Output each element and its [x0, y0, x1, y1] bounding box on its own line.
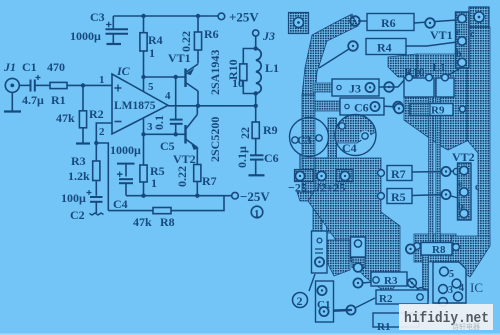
wire R1 to opamp pin1	[67, 84, 112, 86]
copper pour right column	[467, 27, 490, 245]
svg-text:2SC5200: 2SC5200	[208, 117, 222, 162]
wire J1 to C1	[19, 84, 29, 86]
svg-text:R7: R7	[202, 174, 217, 188]
copper strip between C3 C4	[328, 118, 337, 160]
svg-text:R5: R5	[391, 190, 406, 204]
op-amp U1 LM1875 triangle	[112, 74, 168, 134]
trace J3 left	[313, 83, 332, 92]
resistor R6	[194, 16, 201, 64]
svg-text:1: 1	[151, 176, 157, 190]
node rail-R4	[141, 14, 145, 18]
svg-text:VT1: VT1	[430, 28, 453, 42]
svg-text:L1: L1	[432, 60, 446, 74]
node output-collectors	[196, 104, 200, 108]
wire J3 down	[255, 36, 257, 48]
terminal J3	[253, 30, 259, 36]
node R7 bottom	[195, 194, 199, 198]
component R7 box	[378, 166, 412, 182]
svg-text:VT2: VT2	[452, 150, 475, 164]
trace C6 to R9	[381, 106, 399, 107]
svg-text:4: 4	[165, 90, 171, 102]
capacitor C1	[31, 75, 41, 92]
svg-text:IC: IC	[116, 64, 131, 78]
svg-text:+25V: +25V	[229, 10, 259, 25]
node R4 pin5	[141, 75, 145, 79]
copper pour center	[308, 158, 400, 295]
wire L1 to output	[255, 94, 257, 123]
capacitor C5	[170, 120, 183, 135]
wire pin3 stub	[143, 118, 145, 134]
svg-text:1: 1	[149, 46, 155, 60]
svg-text:C6: C6	[264, 151, 279, 165]
svg-text:470: 470	[47, 60, 65, 74]
capacitor C4	[117, 164, 135, 196]
svg-text:4: 4	[459, 283, 464, 294]
svg-text:4.7μ: 4.7μ	[22, 93, 44, 107]
capacitor C3	[106, 16, 129, 44]
svg-text:R9: R9	[431, 105, 445, 117]
svg-text:J2: J2	[314, 181, 327, 195]
svg-text:22: 22	[238, 127, 252, 139]
copper trace band J2 riser	[302, 158, 331, 192]
svg-text:c: c	[470, 29, 475, 40]
svg-text:3: 3	[448, 285, 453, 296]
svg-text:R1: R1	[51, 93, 66, 107]
component C1 box pcb	[316, 281, 334, 322]
component R6 box	[367, 14, 414, 31]
svg-text:R3: R3	[71, 154, 86, 168]
resistor R2	[76, 85, 90, 143]
trace VT1 to L1	[447, 67, 462, 76]
wire output rail	[168, 105, 256, 107]
inductor L1	[256, 49, 262, 94]
pad R9 right	[460, 106, 466, 112]
resistor R9	[252, 122, 259, 155]
svg-text:5: 5	[148, 81, 154, 93]
node R5 top	[141, 132, 145, 136]
trace J3 to R10	[375, 78, 406, 87]
trace C6 left	[315, 101, 340, 111]
component L1 box	[436, 74, 454, 97]
svg-text:1.2k: 1.2k	[68, 169, 90, 183]
terminal +25V	[218, 13, 225, 20]
node output R9	[254, 104, 258, 108]
copper trace strips to J1	[313, 199, 322, 231]
svg-text:R2: R2	[89, 107, 104, 121]
wire pin2 node to R8 rail	[96, 143, 108, 211]
resistor R1	[50, 82, 67, 88]
copper pour IC diagonal	[448, 236, 490, 277]
copper pour behind R8	[414, 234, 456, 262]
component R5 box	[378, 189, 412, 205]
trace C2pad to R3	[362, 281, 384, 283]
svg-text:−25V: −25V	[240, 189, 270, 204]
pad R4 left	[348, 41, 358, 51]
svg-text:IC: IC	[470, 280, 483, 295]
component J3 box	[332, 79, 379, 96]
wire feedback line to VT2 base	[144, 133, 186, 135]
svg-text:1: 1	[254, 208, 260, 220]
connector J1	[4, 78, 21, 111]
svg-text:5: 5	[449, 269, 454, 280]
pad right of C1	[346, 305, 355, 314]
transistor Q1 VT1	[186, 64, 199, 106]
copper pour left swath arm	[302, 14, 358, 95]
terminal -25V	[232, 192, 239, 199]
trace R7 to VT2	[412, 171, 460, 172]
copper pour top right blob	[404, 54, 471, 150]
pad R6 left	[350, 16, 360, 26]
trace R6 pads link	[358, 20, 457, 23]
node L1 bottom	[254, 91, 258, 95]
mount pad top-left	[289, 13, 309, 34]
svg-text:10: 10	[232, 76, 244, 90]
component C4 circle	[335, 114, 377, 156]
svg-text:R7: R7	[391, 167, 406, 181]
node circled 2	[293, 293, 308, 308]
svg-text:47k: 47k	[133, 215, 152, 229]
pads R5 right	[441, 190, 450, 199]
svg-text:b: b	[456, 49, 462, 60]
node circled 1	[251, 206, 263, 218]
component R4 box	[366, 39, 406, 55]
svg-text:+25: +25	[327, 181, 346, 195]
component VT1 box	[430, 12, 475, 68]
svg-text:R9: R9	[263, 123, 278, 137]
watermark hifidiy.net	[399, 304, 493, 331]
svg-text:J3: J3	[349, 82, 361, 96]
plus sign input	[115, 85, 122, 92]
copper wedge above J3	[388, 54, 417, 77]
svg-text:R3: R3	[384, 275, 398, 287]
component C2 box pcb	[351, 237, 366, 288]
svg-text:e: e	[458, 179, 463, 190]
svg-text:1: 1	[99, 74, 105, 86]
trace J1 down	[309, 274, 315, 291]
svg-text:C1: C1	[22, 60, 37, 74]
node L1 top	[254, 46, 258, 50]
trace vertical pair	[429, 97, 434, 243]
pads chain left of IC	[408, 279, 417, 288]
node input junction	[81, 83, 85, 87]
component R3 box pcb	[371, 272, 407, 287]
svg-text:R4: R4	[377, 41, 392, 55]
svg-text:100μ: 100μ	[61, 191, 86, 205]
svg-text:c: c	[475, 182, 480, 193]
node pin2 feedback	[94, 141, 98, 145]
pad R6 right	[425, 18, 435, 28]
svg-text:VT1: VT1	[168, 51, 191, 65]
node C5-VT2 line	[174, 132, 178, 136]
pads R7 right	[441, 167, 450, 176]
component IC footprint	[433, 262, 466, 306]
copper trace band through C3	[302, 95, 315, 160]
svg-text:R6: R6	[381, 16, 396, 30]
component C3 circle	[290, 117, 329, 157]
capacitor C2	[87, 190, 104, 215]
resistor R3	[93, 143, 100, 196]
svg-text:R1: R1	[377, 321, 390, 333]
svg-text:VT2: VT2	[173, 152, 196, 166]
wire bottom -25V rail	[126, 195, 232, 197]
svg-text:C3: C3	[90, 10, 105, 24]
copper pour J2 flare	[297, 192, 344, 201]
svg-text:0.1μ: 0.1μ	[235, 146, 249, 168]
trace C1 bottom	[325, 310, 350, 311]
component R8 box pcb	[414, 243, 460, 257]
svg-text:1000μ: 1000μ	[70, 29, 101, 43]
svg-text:1000μ: 1000μ	[110, 143, 141, 157]
wire C1 to R1	[35, 84, 50, 86]
wire C5 branch vertical	[175, 77, 177, 119]
svg-text:47k: 47k	[56, 111, 75, 125]
svg-text:R6: R6	[204, 27, 219, 41]
resistor R10	[240, 49, 256, 94]
transistor Q2 VT2	[186, 106, 198, 165]
svg-text:2SA1943: 2SA1943	[208, 50, 222, 95]
node rail-R6	[196, 14, 200, 18]
svg-text:b: b	[458, 201, 464, 212]
trace J2 left up	[299, 140, 301, 170]
svg-text:C4: C4	[113, 197, 128, 211]
minus sign input	[115, 121, 122, 123]
svg-text:J1: J1	[3, 60, 16, 74]
trace C1pad to R2	[355, 298, 375, 308]
component VT2 box	[452, 150, 480, 220]
component R1 box pcb	[373, 313, 419, 333]
resistor R8	[153, 208, 171, 214]
svg-text:R4: R4	[148, 33, 163, 47]
svg-text:LM1875: LM1875	[114, 100, 156, 112]
wire R8 rail	[108, 196, 224, 211]
component J1 box pcb	[312, 231, 328, 273]
pad left of R8	[406, 244, 415, 253]
resistor R4	[140, 16, 147, 92]
component C6 box	[340, 98, 384, 115]
svg-text:L1: L1	[265, 61, 279, 75]
svg-text:0.1: 0.1	[152, 115, 166, 130]
svg-text:诗轩电器: 诗轩电器	[452, 322, 480, 331]
pad J3 right	[384, 82, 394, 92]
component R9 box	[410, 104, 453, 117]
svg-text:−25: −25	[288, 181, 307, 195]
svg-text:R8: R8	[432, 244, 446, 256]
svg-text:0.22: 0.22	[175, 166, 189, 187]
trace R4 to VT1	[406, 42, 457, 46]
svg-text:2: 2	[99, 126, 105, 138]
capacitor C6	[249, 155, 265, 175]
svg-text:C2: C2	[70, 208, 85, 222]
trace R5 right	[412, 195, 458, 199]
trace R4 to swath	[319, 49, 349, 68]
copper pour J1-C2 patch	[327, 240, 350, 276]
resistor R5	[140, 134, 147, 195]
power rail +25V top	[113, 15, 218, 17]
svg-text:R2: R2	[379, 293, 393, 305]
wire pin2 stub	[96, 123, 112, 143]
svg-text:C6: C6	[354, 101, 369, 115]
node base branch	[174, 75, 178, 79]
component R2 box pcb	[376, 290, 428, 305]
connector J2 pads	[295, 170, 354, 182]
svg-text:e: e	[456, 27, 461, 38]
svg-text:0.22: 0.22	[179, 31, 193, 52]
mount pad top-right	[469, 7, 489, 27]
pad C6 right	[393, 102, 403, 112]
svg-text:C3: C3	[297, 133, 312, 147]
resistor R7	[194, 165, 201, 196]
wire base line VT1	[144, 76, 186, 78]
pad R9 left	[394, 104, 404, 114]
svg-text:C4: C4	[342, 141, 357, 155]
svg-text:J3: J3	[262, 29, 275, 43]
component R10 box	[404, 74, 434, 97]
node R5 bottom	[141, 194, 145, 198]
svg-text:R8: R8	[160, 215, 175, 229]
svg-text:2: 2	[297, 294, 303, 308]
svg-text:C5: C5	[160, 139, 175, 153]
